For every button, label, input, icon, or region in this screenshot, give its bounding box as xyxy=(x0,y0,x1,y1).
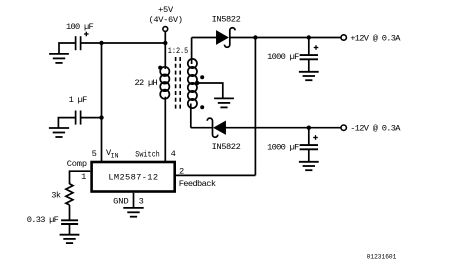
svg-text:IN5822: IN5822 xyxy=(212,15,241,25)
svg-text:1000 µF: 1000 µF xyxy=(267,52,299,62)
svg-text:4: 4 xyxy=(171,149,176,159)
label C1 plus xyxy=(84,33,89,35)
svg-text:Feedback: Feedback xyxy=(179,179,216,189)
svg-text:01231601: 01231601 xyxy=(367,254,397,261)
capacitor C2 1uF xyxy=(75,111,77,125)
svg-text:IN5822: IN5822 xyxy=(212,142,241,152)
svg-text:Comp: Comp xyxy=(67,159,87,169)
node +12V terminal xyxy=(341,35,346,40)
wire 100uF to ground xyxy=(59,43,76,54)
svg-text:3k: 3k xyxy=(51,191,61,201)
transformer T1 secondary winding xyxy=(191,38,193,65)
node C1 junction xyxy=(99,41,103,45)
wire secondary bottom to diode xyxy=(191,127,213,129)
svg-text:100 µF: 100 µF xyxy=(66,22,93,32)
wire center tap to ground xyxy=(197,83,223,98)
ground under C3 xyxy=(299,72,319,80)
capacitor C3 1000uF top xyxy=(308,38,310,56)
node +5V rail junction xyxy=(163,41,167,45)
ground under C4 xyxy=(299,162,319,170)
transformer phase dot secondary bottom xyxy=(200,105,204,109)
ground pin 3 xyxy=(123,208,143,217)
plus marks drawn as lines xyxy=(84,32,318,140)
node C4 junction xyxy=(307,126,311,130)
svg-text:1: 1 xyxy=(81,172,86,182)
wire bottom rail xyxy=(225,127,341,129)
op-amp U1 LM2587-12 box xyxy=(92,162,175,192)
svg-text:1000 µF: 1000 µF xyxy=(267,143,299,153)
svg-text:2: 2 xyxy=(179,167,184,177)
transformer phase dot secondary top xyxy=(200,75,204,79)
svg-text:1 µF: 1 µF xyxy=(69,95,87,105)
wire pin 1 comp xyxy=(70,171,91,184)
label C4 plus xyxy=(313,137,318,139)
transformer phase dot primary xyxy=(158,66,162,70)
node -12V terminal xyxy=(341,125,346,130)
node feedback junction xyxy=(253,35,257,39)
wire input rail xyxy=(81,42,166,44)
svg-text:LM2587-12: LM2587-12 xyxy=(108,173,158,183)
diode D2 IN5822 bottom xyxy=(215,122,225,133)
transformer core dashed lines xyxy=(176,57,181,111)
ground under C2 xyxy=(49,128,69,137)
svg-text:22 µH: 22 µH xyxy=(135,78,158,88)
svg-text:GND: GND xyxy=(113,197,129,207)
svg-text:0.33 µF: 0.33 µF xyxy=(27,215,59,225)
wire feedback vertical xyxy=(254,38,256,176)
transformer T1 primary winding 22uH xyxy=(164,43,166,69)
svg-text:1:2.5: 1:2.5 xyxy=(168,46,189,56)
node +5V input terminal xyxy=(163,27,168,32)
node center tap junction xyxy=(195,81,199,85)
ground under C5 xyxy=(60,235,80,243)
wire +5V stub xyxy=(164,31,166,43)
wire 1uF to ground xyxy=(58,118,75,128)
ground center tap xyxy=(214,98,234,107)
wire feedback horizontal pin 2 xyxy=(176,174,255,176)
junction dots xyxy=(99,35,311,130)
svg-text:Switch: Switch xyxy=(135,150,160,160)
diode D1 IN5822 top xyxy=(217,32,227,44)
wire resistor to cap xyxy=(69,205,71,220)
node C3 junction xyxy=(307,35,311,39)
wire secondary top to diode xyxy=(192,37,217,39)
wire top rail xyxy=(230,37,341,39)
svg-text:(4V-6V): (4V-6V) xyxy=(149,15,183,25)
capacitor C5 0.33uF xyxy=(61,220,78,224)
wire Vin vertical xyxy=(101,43,103,162)
wire pin 3 gnd xyxy=(133,193,135,208)
wire 1uF to Vin xyxy=(81,117,102,119)
capacitor C4 1000uF bottom xyxy=(308,128,310,145)
svg-text:3: 3 xyxy=(139,197,144,207)
svg-text:5: 5 xyxy=(92,149,97,159)
ground under C1 xyxy=(49,54,69,63)
capacitor C1 100uF xyxy=(75,36,77,50)
label C3 plus xyxy=(314,47,319,49)
svg-text:+5V: +5V xyxy=(158,5,174,15)
resistor R1 3k xyxy=(66,184,73,205)
node C2 junction xyxy=(99,115,103,119)
svg-text:+12V @ 0.3A: +12V @ 0.3A xyxy=(350,33,401,43)
svg-text:-12V @ 0.3A: -12V @ 0.3A xyxy=(350,124,401,134)
